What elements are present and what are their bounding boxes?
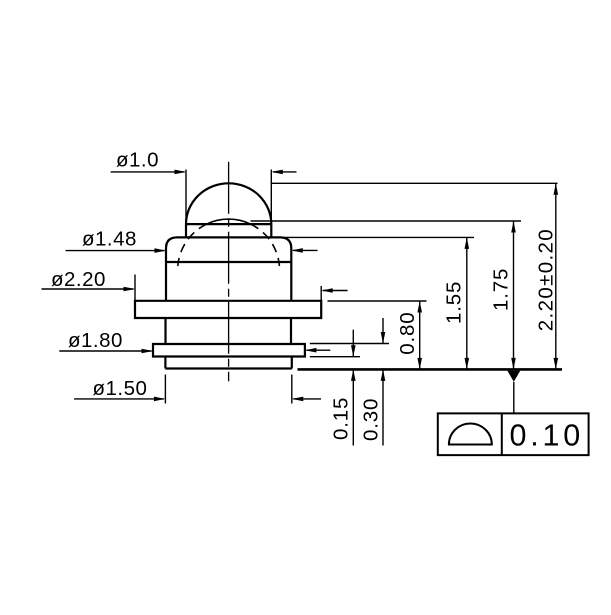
dimension dia1.0 right leader (273, 171, 297, 173)
svg-text:ø1.0: ø1.0 (116, 149, 159, 172)
arrowhead dia1.50 right (292, 397, 304, 402)
arrowhead dia1.80 right (305, 348, 317, 353)
extension line flange right (320, 286, 322, 301)
arrowhead dia2.20 left (124, 287, 136, 292)
extension line stub right (291, 375, 293, 404)
barrel left side (164, 318, 166, 344)
ball cap solid arc (207, 219, 251, 224)
arrowhead 2.20 bottom (554, 358, 559, 370)
arrowhead dia1.48 left (155, 248, 167, 253)
ball hidden circle left (dashed) (178, 224, 207, 266)
dimension line 1.55 (466, 237, 468, 369)
extension line dia1.48 left tick (165, 244, 167, 257)
svg-text:0.30: 0.30 (359, 398, 382, 441)
dome outline (lens top) (186, 183, 271, 224)
extension line flange left (134, 275, 136, 301)
profile of surface symbol (449, 424, 492, 445)
dimension dia1.50 right leader (293, 398, 321, 400)
svg-text:0.10: 0.10 (510, 419, 585, 453)
svg-text:2.20±0.20: 2.20±0.20 (534, 228, 557, 331)
svg-text:ø2.20: ø2.20 (51, 268, 106, 291)
seating plane datum line (298, 368, 563, 371)
dimension dia2.20 left leader (42, 288, 134, 290)
barrel right side (290, 318, 292, 344)
shoulder outline with rounded corners (166, 237, 291, 300)
arrowhead dia1.0 left (175, 170, 187, 175)
dimension line 0.30 upper (382, 318, 384, 344)
body line (166, 261, 291, 263)
dimension line 0.30 lower (382, 369, 384, 445)
arrowhead 1.55 bottom (465, 358, 470, 370)
dimension line 1.75 (513, 221, 515, 369)
arrowhead 0.80 bottom (417, 358, 422, 370)
stub right side (291, 357, 293, 369)
svg-text:0.15: 0.15 (330, 397, 353, 440)
svg-text:ø1.80: ø1.80 (68, 329, 123, 352)
datum leader line (513, 382, 515, 414)
dimension line 0.15 upper (352, 330, 354, 357)
extension line ring top (310, 343, 389, 345)
extension line dia1.0 left (185, 170, 187, 225)
dimension line 0.80 (419, 301, 421, 369)
extension line dia1.48 right tick (290, 244, 292, 257)
arrowhead 1.75 top (511, 221, 516, 233)
arrowhead 0.15 upper down (351, 345, 356, 357)
arrowhead dia1.80 left (142, 349, 154, 354)
dimension dia1.80 left leader (59, 350, 151, 352)
ball hidden circle right (dashed) (251, 224, 280, 266)
arrowhead dia1.48 right (291, 248, 303, 253)
datum triangle (507, 371, 520, 382)
dimension dia1.50 left leader (74, 398, 164, 400)
stub bottom edge (165, 367, 291, 369)
arrowhead 0.30 lower up (381, 369, 386, 381)
svg-text:1.55: 1.55 (442, 281, 465, 324)
lip left side (185, 224, 187, 237)
arrowhead 0.30 upper down (381, 332, 386, 344)
arrowhead dia2.20 right (321, 288, 333, 293)
flange outline (135, 301, 321, 318)
arrowhead dia1.50 left (154, 397, 166, 402)
centerline (228, 162, 230, 381)
equator line (dome base) (186, 223, 271, 225)
arrowhead dia1.0 right (271, 170, 283, 175)
svg-text:ø1.50: ø1.50 (93, 377, 148, 400)
extension line ball top (251, 220, 522, 222)
svg-text:0.80: 0.80 (396, 311, 419, 354)
arrowhead 0.80 top (417, 301, 422, 313)
dimension line 2.20 (555, 183, 557, 369)
dimension dia1.80 right leader (306, 349, 330, 351)
dimension dia2.20 right leader (323, 290, 348, 292)
ring outline (153, 344, 305, 357)
extension line shoulder top (280, 236, 474, 238)
svg-text:ø1.48: ø1.48 (82, 228, 137, 251)
extension line stub left (164, 375, 166, 404)
dimension dia1.48 right leader (293, 249, 318, 251)
arrowhead 1.75 bottom (511, 358, 516, 370)
dimension line 0.15 lower (352, 369, 354, 445)
arrowhead 1.55 top (465, 237, 470, 249)
svg-text:1.75: 1.75 (490, 268, 513, 311)
arrowhead 0.15 lower up (351, 369, 356, 381)
extension line dia1.0 right (270, 170, 272, 225)
extension line dome top (271, 182, 558, 184)
lip right side (270, 224, 272, 237)
dimension dia1.0 left leader (111, 171, 185, 173)
arrowhead 2.20 top (554, 183, 559, 195)
stub left side (164, 357, 166, 369)
extension line flange top (328, 300, 427, 302)
dimension dia1.48 left leader (66, 250, 165, 252)
feature control frame divider (501, 413, 503, 455)
feature control frame box (438, 413, 589, 455)
extension line ring bottom (310, 356, 360, 358)
